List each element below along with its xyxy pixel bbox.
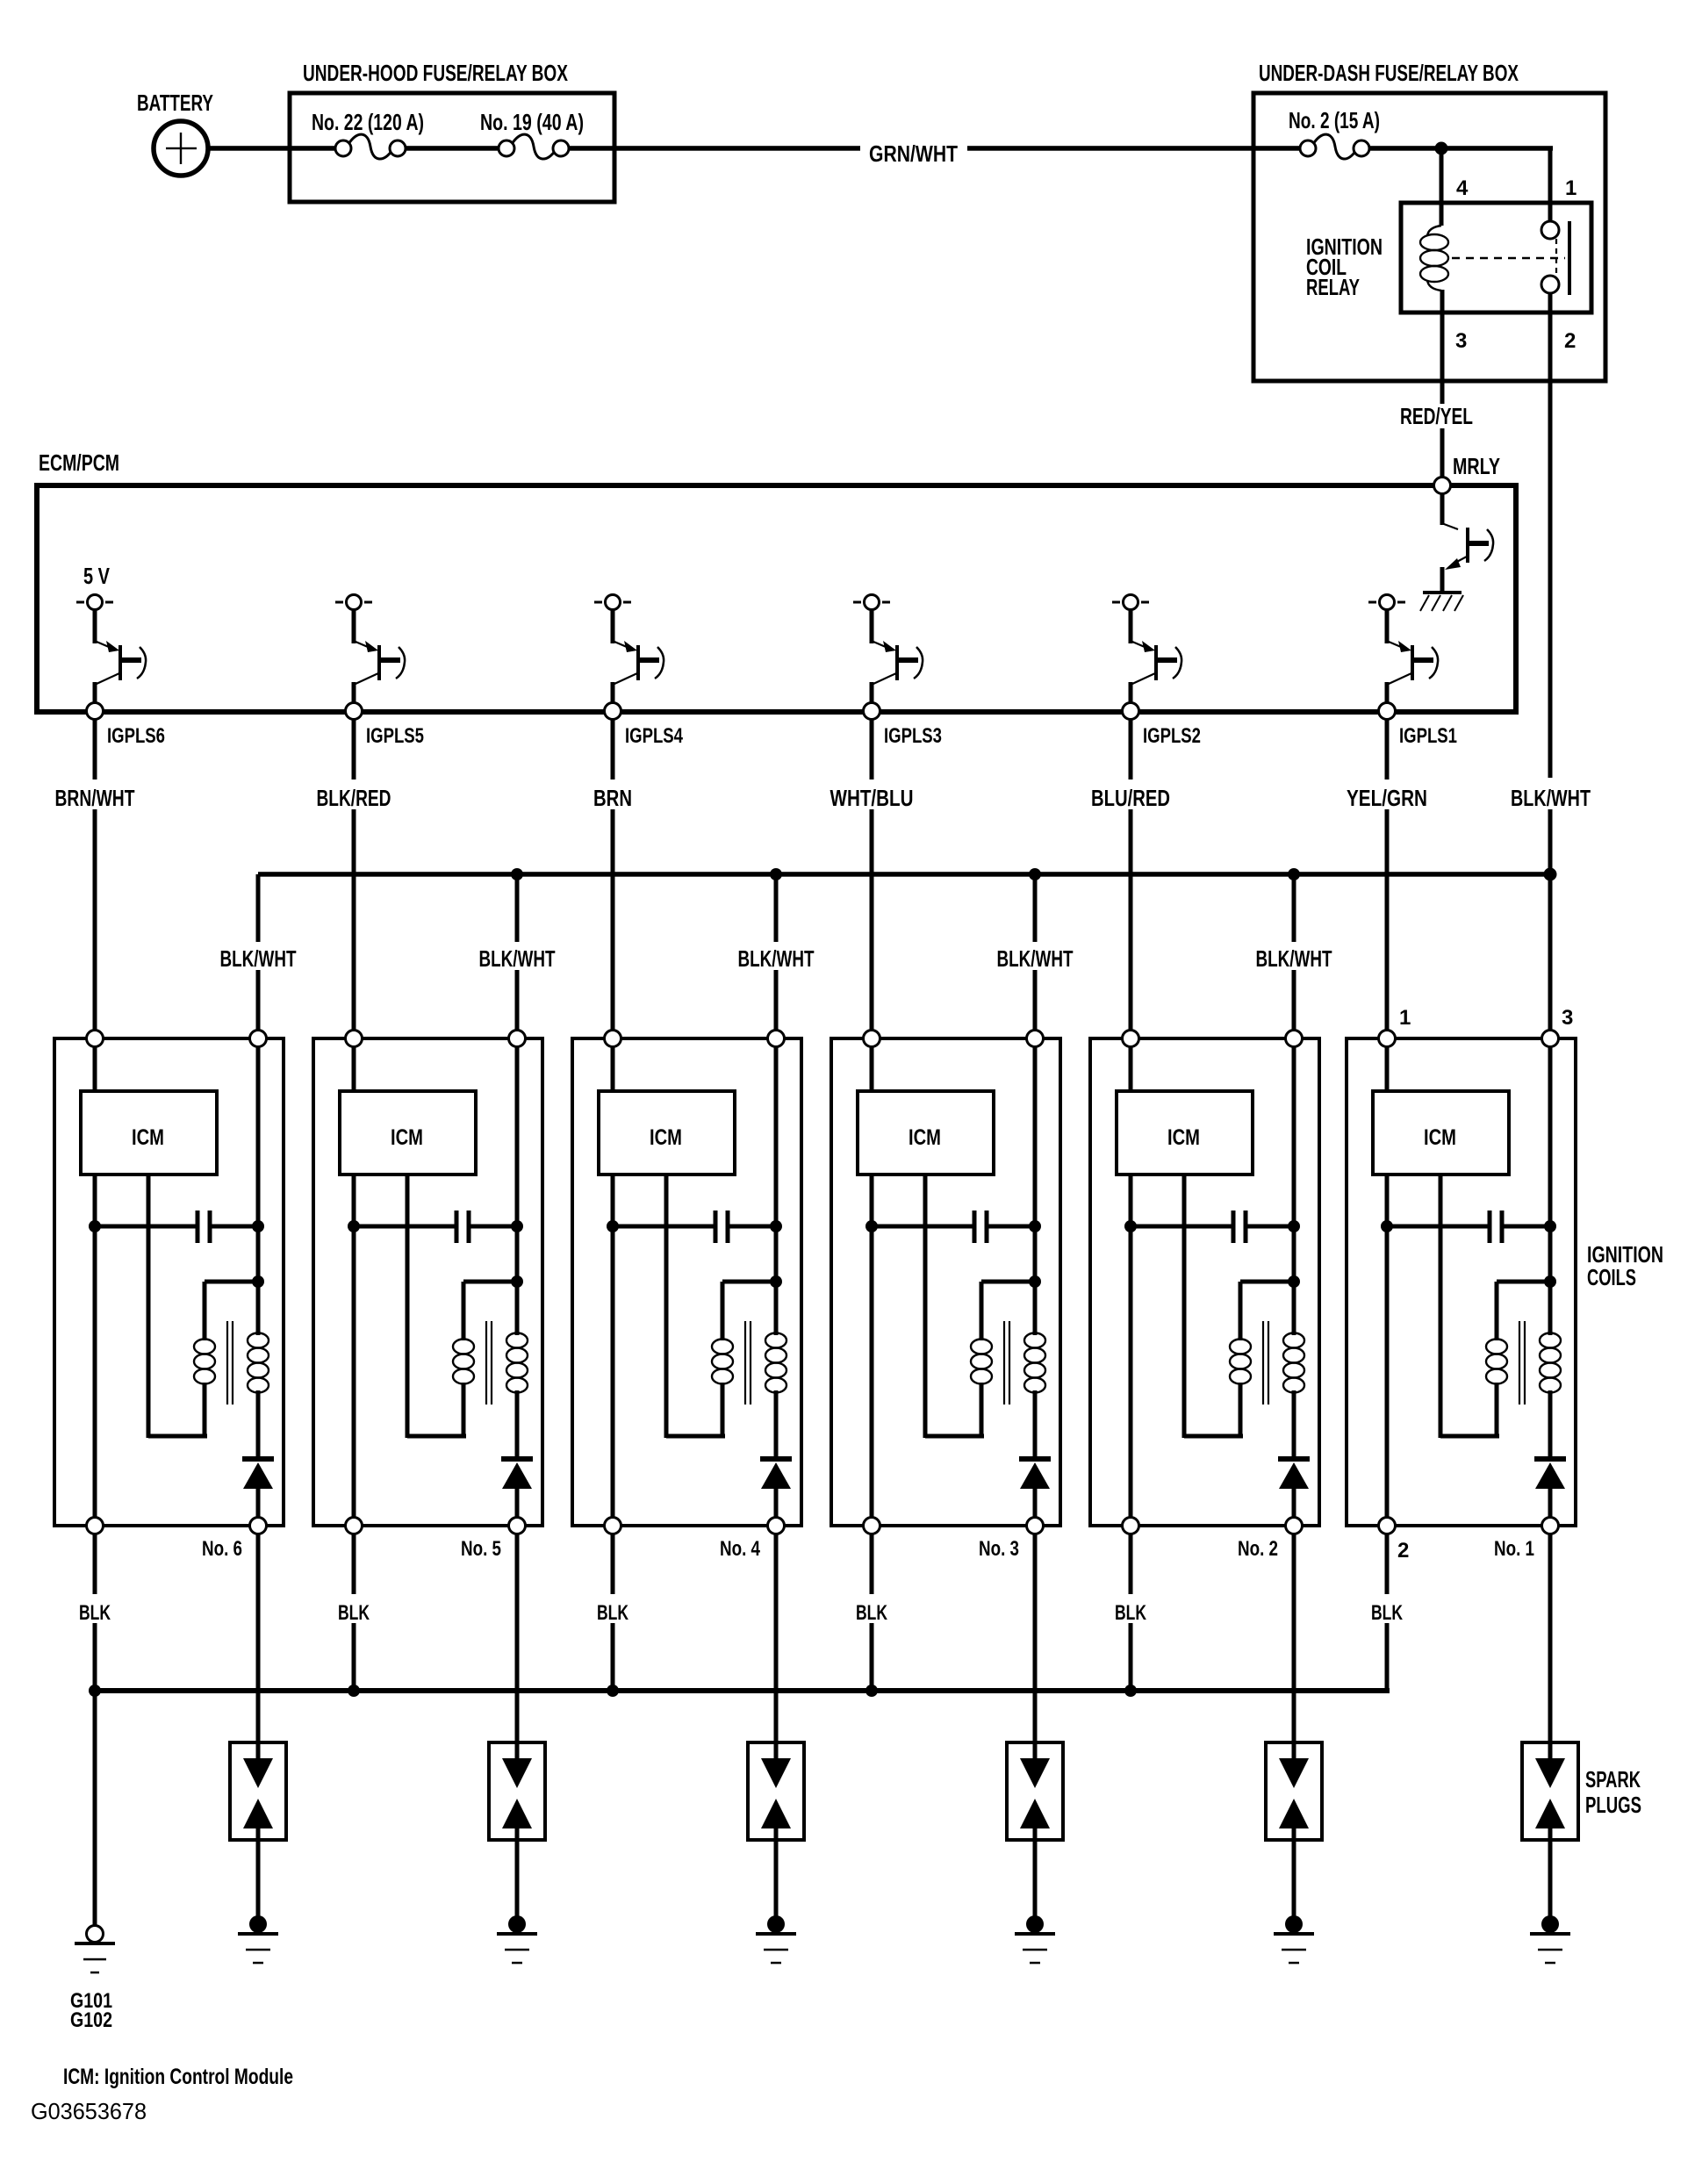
svg-text:BATTERY: BATTERY xyxy=(137,90,213,116)
svg-text:BLK/WHT: BLK/WHT xyxy=(479,945,556,972)
svg-text:ICM: Ignition Control Module: ICM: Ignition Control Module xyxy=(63,2065,293,2089)
svg-text:1: 1 xyxy=(1399,1006,1411,1030)
svg-text:RED/YEL: RED/YEL xyxy=(1400,403,1473,429)
svg-text:BLK/WHT: BLK/WHT xyxy=(997,945,1074,972)
svg-text:BRN: BRN xyxy=(593,785,632,811)
svg-text:No. 6: No. 6 xyxy=(202,1537,242,1561)
svg-text:ICM: ICM xyxy=(650,1125,682,1150)
svg-text:IGPLS6: IGPLS6 xyxy=(107,724,165,748)
svg-text:UNDER-DASH FUSE/RELAY BOX: UNDER-DASH FUSE/RELAY BOX xyxy=(1259,60,1519,86)
svg-text:IGPLS2: IGPLS2 xyxy=(1143,724,1201,748)
svg-text:3: 3 xyxy=(1562,1006,1573,1030)
svg-text:SPARK: SPARK xyxy=(1585,1766,1641,1792)
svg-text:BLK: BLK xyxy=(1115,1601,1146,1625)
svg-text:COILS: COILS xyxy=(1587,1264,1636,1290)
svg-text:YEL/GRN: YEL/GRN xyxy=(1347,785,1427,811)
svg-text:BLK: BLK xyxy=(856,1601,887,1625)
svg-text:ICM: ICM xyxy=(1424,1125,1456,1150)
svg-text:No. 1: No. 1 xyxy=(1494,1537,1534,1561)
svg-text:ICM: ICM xyxy=(132,1125,164,1150)
svg-text:No. 2: No. 2 xyxy=(1238,1537,1278,1561)
svg-text:BLK/WHT: BLK/WHT xyxy=(1256,945,1332,972)
svg-text:No. 5: No. 5 xyxy=(461,1537,501,1561)
svg-text:BLK: BLK xyxy=(79,1601,111,1625)
svg-text:1: 1 xyxy=(1565,176,1576,200)
svg-text:5 V: 5 V xyxy=(83,563,111,589)
svg-text:RELAY: RELAY xyxy=(1306,274,1360,300)
svg-text:BLK: BLK xyxy=(597,1601,628,1625)
svg-text:IGPLS3: IGPLS3 xyxy=(884,724,942,748)
svg-text:No. 4: No. 4 xyxy=(720,1537,761,1561)
svg-text:No. 2 (15 A): No. 2 (15 A) xyxy=(1289,107,1380,133)
svg-text:No. 3: No. 3 xyxy=(979,1537,1019,1561)
svg-text:No. 22 (120 A): No. 22 (120 A) xyxy=(312,109,424,135)
svg-text:GRN/WHT: GRN/WHT xyxy=(869,140,958,167)
svg-text:IGPLS4: IGPLS4 xyxy=(625,724,684,748)
svg-text:G03653678: G03653678 xyxy=(31,2098,147,2124)
svg-text:MRLY: MRLY xyxy=(1453,453,1500,479)
svg-text:PLUGS: PLUGS xyxy=(1585,1792,1641,1818)
svg-text:BLK: BLK xyxy=(338,1601,370,1625)
svg-text:ECM/PCM: ECM/PCM xyxy=(39,449,119,476)
svg-text:BLK/RED: BLK/RED xyxy=(317,785,391,811)
svg-text:No. 19 (40 A): No. 19 (40 A) xyxy=(480,109,584,135)
svg-text:BLK/WHT: BLK/WHT xyxy=(738,945,815,972)
svg-text:ICM: ICM xyxy=(391,1125,423,1150)
svg-text:BLK/WHT: BLK/WHT xyxy=(1511,785,1591,811)
svg-text:UNDER-HOOD FUSE/RELAY BOX: UNDER-HOOD FUSE/RELAY BOX xyxy=(303,60,568,86)
svg-text:WHT/BLU: WHT/BLU xyxy=(830,785,914,811)
svg-text:IGPLS1: IGPLS1 xyxy=(1399,724,1457,748)
svg-text:BLK: BLK xyxy=(1371,1601,1403,1625)
svg-text:ICM: ICM xyxy=(1167,1125,1200,1150)
svg-text:3: 3 xyxy=(1455,329,1467,353)
svg-text:BLK/WHT: BLK/WHT xyxy=(220,945,297,972)
svg-text:G102: G102 xyxy=(70,2008,112,2032)
svg-text:BRN/WHT: BRN/WHT xyxy=(55,785,135,811)
svg-text:BLU/RED: BLU/RED xyxy=(1091,785,1170,811)
svg-text:IGPLS5: IGPLS5 xyxy=(366,724,424,748)
svg-text:2: 2 xyxy=(1564,329,1576,353)
svg-text:4: 4 xyxy=(1456,176,1469,200)
svg-text:2: 2 xyxy=(1397,1539,1409,1563)
svg-text:ICM: ICM xyxy=(909,1125,941,1150)
